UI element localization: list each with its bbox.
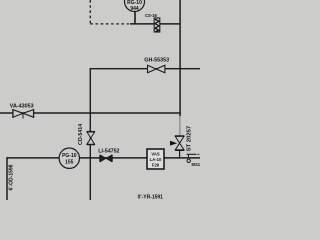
wire horizontal pipe top — [130, 23, 180, 25]
svg-text:CS-16: CS-16 — [145, 13, 158, 18]
svg-text:LI-54752: LI-54752 — [98, 149, 119, 155]
valve LI-54752 — [98, 149, 119, 162]
svg-text:6'-OD-1598: 6'-OD-1598 — [9, 164, 15, 190]
instrument bubble PG-10/155 — [59, 148, 79, 168]
svg-text:ST 20257: ST 20257 — [186, 125, 192, 151]
wire dashed horizontal signal line — [90, 23, 129, 25]
valve CD-5414 (vertical) — [78, 124, 95, 145]
control valve ST 20257 (vertical globe) — [170, 125, 192, 158]
svg-text:944: 944 — [130, 6, 139, 12]
inline strainer CS-16 — [145, 13, 160, 32]
wire valve stem upper — [179, 116, 181, 135]
svg-text:GH-55353: GH-55353 — [144, 57, 169, 63]
svg-text:LA-10: LA-10 — [150, 157, 162, 162]
instrument box VAS LA-10 F29 — [147, 149, 164, 169]
wire horizontal pipe VA — [0, 112, 180, 114]
wire horizontal pipe GH — [90, 68, 200, 70]
wire main horizontal pipe bottom — [7, 157, 200, 159]
wire vertical pipe center-left — [89, 68, 91, 200]
wire vertical pipe far-left — [6, 157, 8, 200]
wire dashed vertical signal line — [89, 0, 91, 25]
valve GH-55353 — [144, 57, 169, 72]
instrument bubble RG-10/944 — [125, 0, 145, 12]
wire main vertical pipe right — [179, 0, 181, 116]
svg-text:MS1: MS1 — [192, 162, 201, 167]
sample tap MS1 — [187, 154, 201, 167]
svg-text:F29: F29 — [152, 163, 160, 168]
wire leader from bubble to line — [134, 12, 136, 25]
svg-text:VA-43053: VA-43053 — [10, 104, 34, 110]
svg-text:0'-YR-1591: 0'-YR-1591 — [138, 195, 164, 201]
valve VA-43053 — [10, 104, 34, 119]
svg-text:PG-10: PG-10 — [62, 153, 77, 159]
svg-text:155: 155 — [65, 160, 74, 166]
svg-text:VAS: VAS — [151, 152, 160, 157]
svg-text:CD-5414: CD-5414 — [78, 124, 84, 145]
